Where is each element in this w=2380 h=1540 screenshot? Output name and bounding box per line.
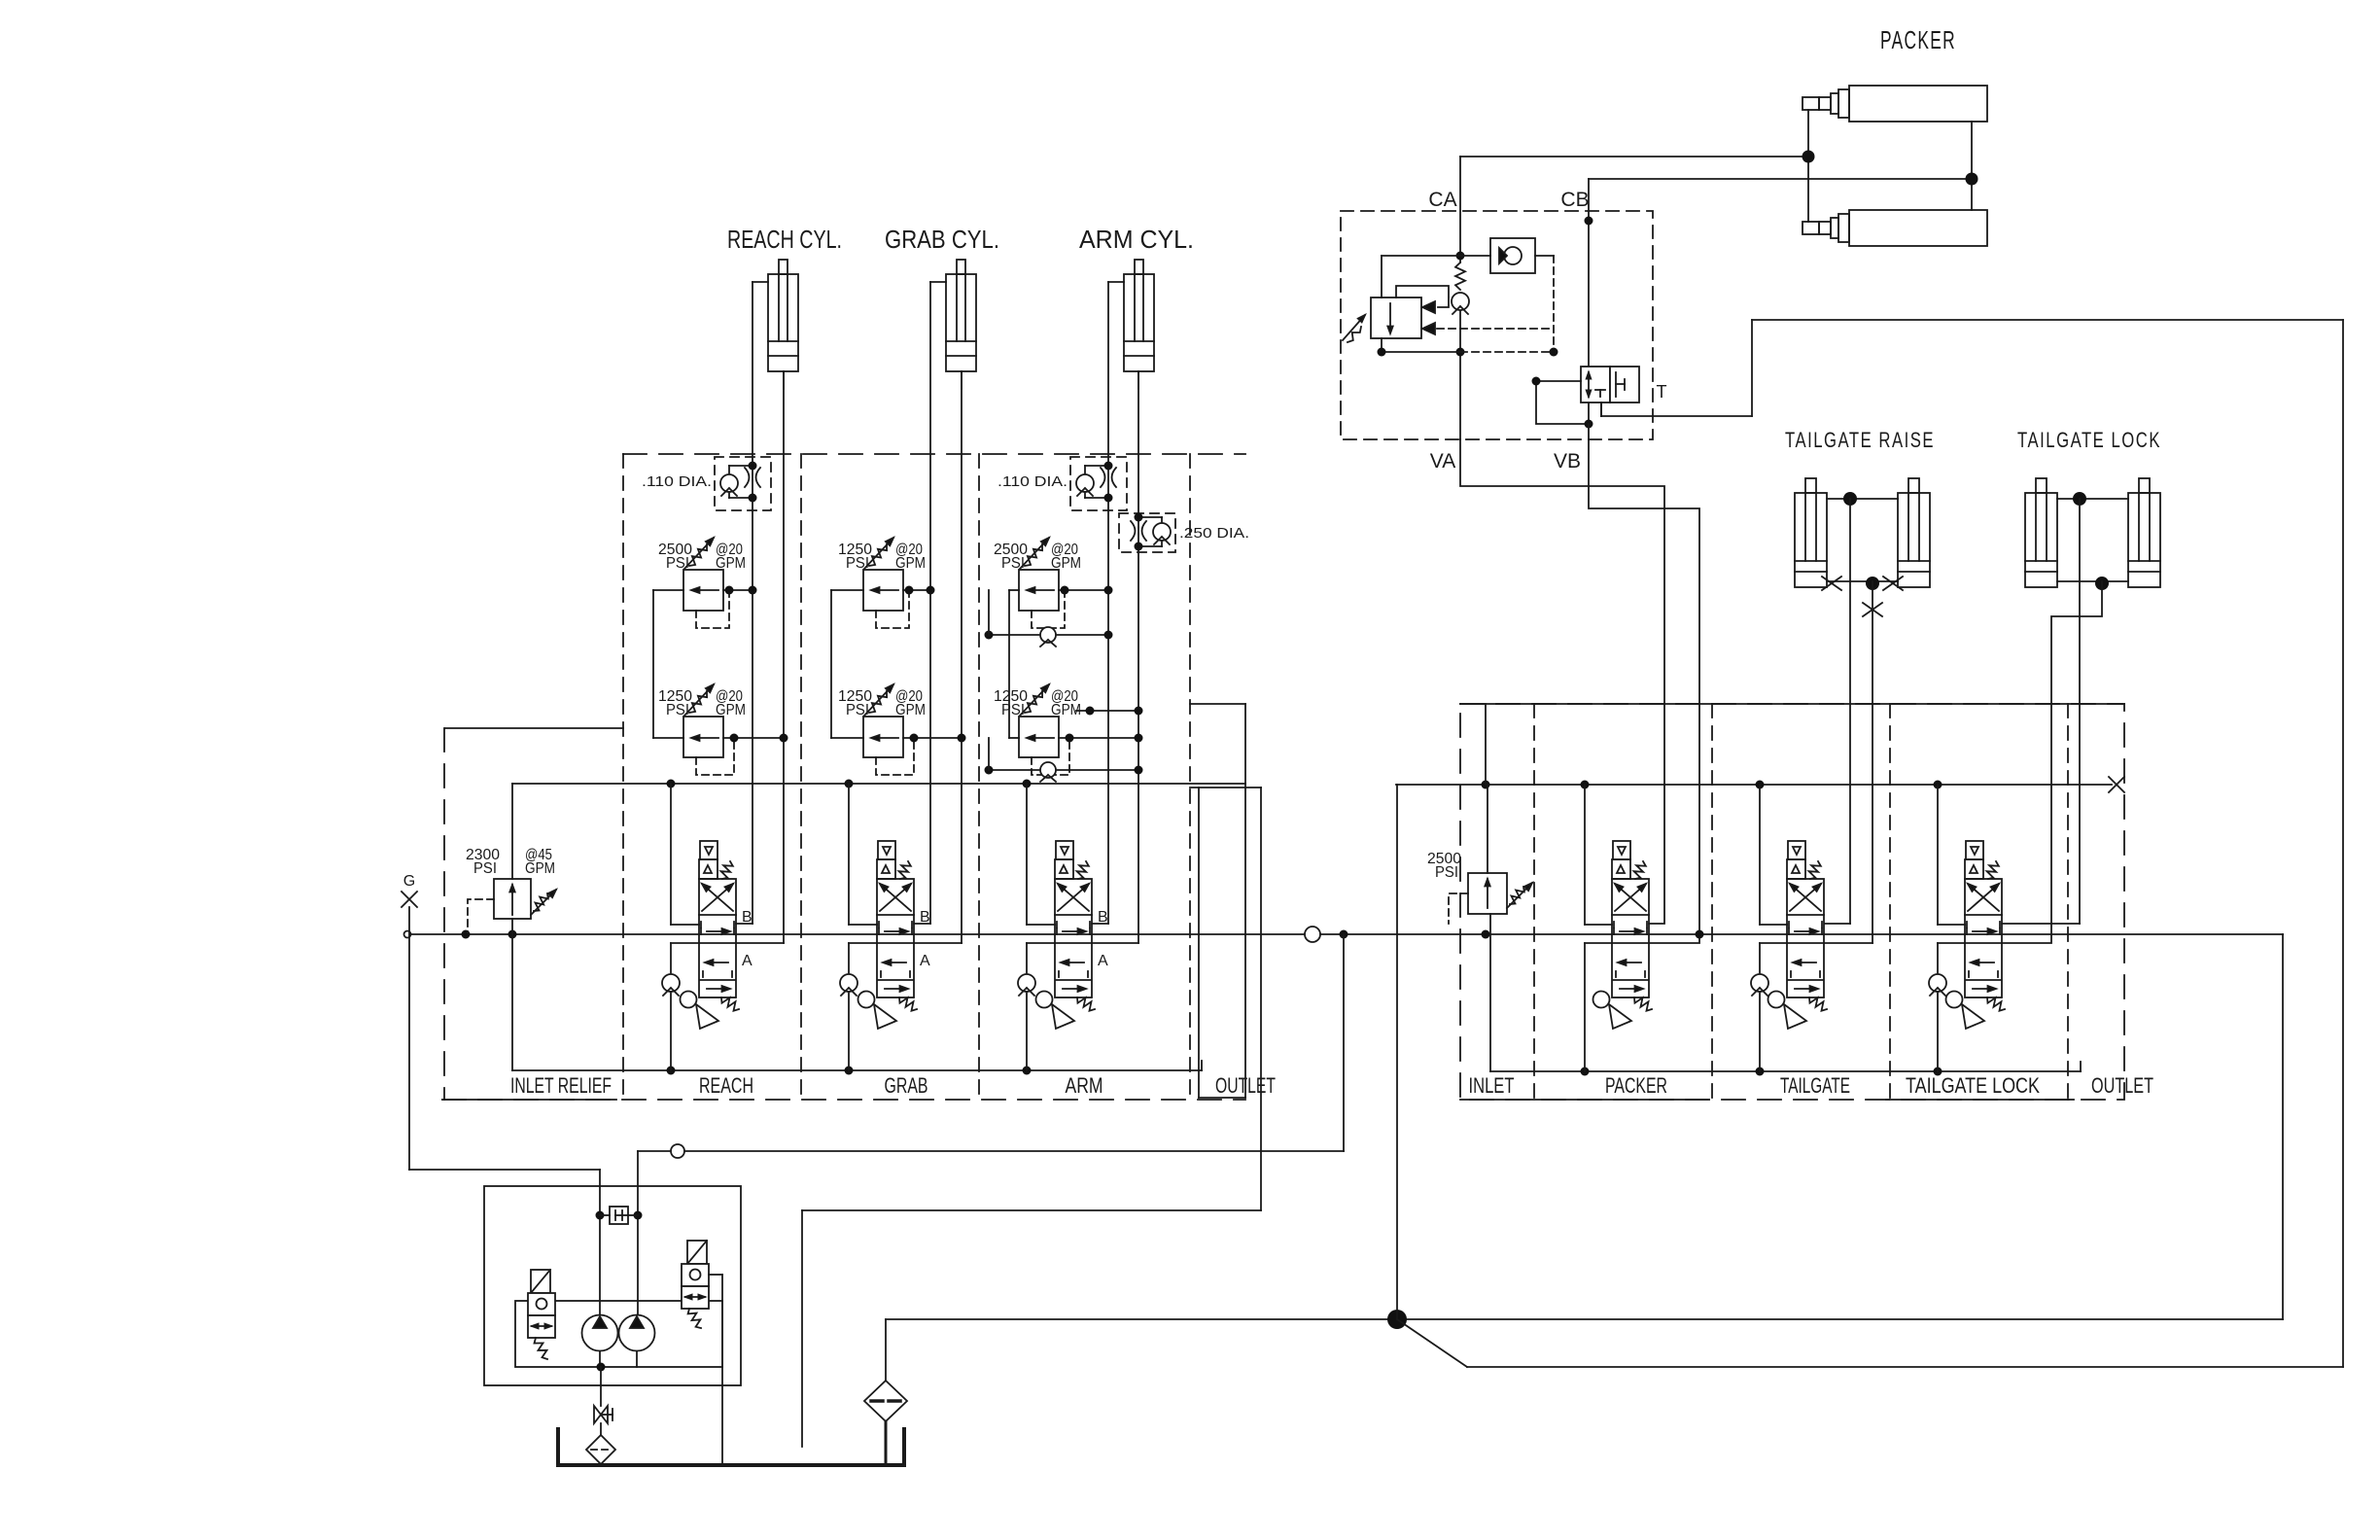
svg-text:PSI: PSI bbox=[1001, 702, 1025, 718]
check valve ARM bridge upper bbox=[985, 590, 1113, 647]
svg-text:GPM: GPM bbox=[1051, 555, 1081, 572]
label OUTLET bank2 bbox=[2091, 1073, 2153, 1098]
outlet column bank1 bbox=[1190, 704, 1245, 1098]
wire relief ARM left bbox=[1009, 590, 1019, 738]
label TAILGATE bank2 bbox=[1780, 1073, 1850, 1098]
label PACKER bbox=[1880, 25, 1956, 54]
wire TAILGATE supply leg bbox=[1760, 785, 1787, 975]
relief GRAB vent loop bbox=[876, 586, 914, 629]
relief GRAB lower vent loop bbox=[876, 734, 919, 776]
label VA bbox=[1430, 450, 1455, 472]
bank 2 separator PACKER/TAILGATE bbox=[1711, 704, 1713, 1100]
wire pump pressure return bbox=[638, 934, 1344, 1315]
wire CA top bbox=[1460, 157, 1808, 262]
relief ARM vent loop bbox=[1032, 586, 1069, 629]
wire cap port ARM bbox=[1137, 371, 1139, 389]
svg-text:G: G bbox=[403, 873, 415, 890]
relief REACH lower vent loop bbox=[696, 734, 739, 776]
pilot block dashed box bbox=[1341, 211, 1653, 439]
check valve ARM bridge lower bbox=[985, 738, 1143, 782]
svg-text:REACH: REACH bbox=[699, 1073, 753, 1098]
solenoid valve pump right bbox=[682, 1241, 709, 1328]
svg-text:VA: VA bbox=[1430, 450, 1455, 472]
wire pump drain bbox=[709, 1275, 722, 1465]
relief valve inlet 2300 PSI bbox=[466, 784, 556, 932]
svg-text:ARM: ARM bbox=[1066, 1073, 1103, 1098]
label OUTLET bank1 bbox=[1215, 1073, 1276, 1098]
wire relief REACH out bbox=[723, 586, 757, 595]
wire relief ARM out bbox=[1059, 586, 1113, 595]
wire REACH cap line bbox=[736, 371, 784, 943]
svg-text:PSI: PSI bbox=[1001, 555, 1025, 572]
svg-text:INLET RELIEF: INLET RELIEF bbox=[510, 1073, 612, 1098]
bank 1 section separator INLET RELIEF/REACH bbox=[622, 454, 624, 1100]
svg-text:TAILGATE LOCK: TAILGATE LOCK bbox=[1906, 1073, 2040, 1098]
svg-text:T: T bbox=[1657, 382, 1667, 402]
relief valve GRAB 1250 PSI lower bbox=[838, 684, 926, 757]
bank 1 section separator ARM/OUTLET bbox=[1189, 454, 1191, 1100]
label CB bbox=[1560, 189, 1589, 211]
strainer suction bbox=[586, 1423, 615, 1464]
label TAILGATE RAISE bbox=[1785, 428, 1935, 452]
svg-text:.110 DIA.: .110 DIA. bbox=[642, 473, 712, 490]
relief REACH vent loop bbox=[696, 586, 734, 629]
svg-text:GPM: GPM bbox=[895, 555, 926, 572]
label REACH CYL. bbox=[727, 225, 842, 254]
wire tailgate raise A bbox=[1825, 581, 1872, 943]
HP gallery bank2 bbox=[1396, 704, 2112, 789]
svg-text:A: A bbox=[1098, 953, 1108, 969]
check/orifice .250 DIA ARM bbox=[1119, 513, 1249, 553]
solenoid valve T bbox=[1581, 367, 1667, 402]
svg-text:INLET: INLET bbox=[1469, 1073, 1515, 1098]
wire rod port REACH bbox=[752, 281, 768, 283]
label GRAB bbox=[885, 1073, 928, 1098]
svg-text:TAILGATE RAISE: TAILGATE RAISE bbox=[1785, 428, 1935, 452]
svg-text:OUTLET: OUTLET bbox=[1215, 1073, 1276, 1098]
plug marks tailgate raise bbox=[1822, 577, 1903, 616]
svg-text:TAILGATE: TAILGATE bbox=[1780, 1073, 1850, 1098]
bank 2 separator INLET/PACKER bbox=[1533, 704, 1535, 1100]
label ARM bbox=[1066, 1073, 1103, 1098]
label ARM CYL. bbox=[1079, 225, 1194, 254]
wire TAILGATE to tank bbox=[1759, 992, 1761, 1071]
pump P2 bbox=[619, 1315, 655, 1351]
relief valve bank2 2500 PSI bbox=[1427, 785, 1532, 924]
wire relief GRAB left bbox=[831, 590, 863, 738]
bank 1 section separator GRAB/ARM bbox=[978, 454, 980, 1100]
svg-text:GRAB: GRAB bbox=[885, 1073, 928, 1098]
svg-text:PSI: PSI bbox=[666, 702, 689, 718]
wire relief REACH left bbox=[653, 590, 683, 738]
wire pump suction legs bbox=[597, 1351, 638, 1372]
tank gallery bank1 bbox=[512, 919, 1202, 1075]
wire ARM rod line bbox=[1092, 282, 1108, 924]
plug mark HP gallery end bbox=[2109, 777, 2124, 792]
orifice coupling pump bbox=[596, 1207, 643, 1224]
svg-text:OUTLET: OUTLET bbox=[2091, 1073, 2153, 1098]
wire REACH to tank bbox=[670, 992, 672, 1070]
label CA bbox=[1428, 189, 1456, 211]
wire suction from G line bbox=[409, 1170, 600, 1315]
wire main return trunk bbox=[886, 785, 2283, 1329]
check valve ARM load check bbox=[1018, 974, 1035, 996]
relief valve REACH 1250 PSI lower bbox=[658, 684, 746, 757]
shutoff valve bbox=[594, 1367, 612, 1423]
relief valve ARM 1250 PSI lower bbox=[994, 684, 1081, 757]
svg-text:PSI: PSI bbox=[666, 555, 689, 572]
wire relief row GRAB bbox=[831, 734, 966, 743]
svg-text:GPM: GPM bbox=[716, 555, 746, 572]
wire outlet loop bbox=[1397, 320, 2343, 1367]
return filter bbox=[864, 1319, 907, 1465]
svg-text:PSI: PSI bbox=[1435, 864, 1458, 881]
svg-text:GPM: GPM bbox=[525, 860, 555, 877]
check valve GRAB load check bbox=[840, 974, 857, 996]
wire relief row REACH bbox=[653, 734, 788, 743]
wire GRAB cap line bbox=[914, 371, 962, 943]
wire rod port GRAB bbox=[930, 281, 946, 283]
svg-text:TAILGATE LOCK: TAILGATE LOCK bbox=[2017, 428, 2161, 452]
svg-text:GRAB CYL.: GRAB CYL. bbox=[885, 225, 999, 254]
check valve REACH load check bbox=[662, 974, 680, 996]
directional valve ARM bbox=[1036, 841, 1109, 1029]
wire REACH check leg bbox=[671, 784, 699, 975]
tailgate lock cylinders bbox=[2025, 478, 2160, 590]
directional valve TAILGATE LOCK bbox=[1946, 841, 2006, 1029]
directional valve REACH bbox=[681, 841, 753, 1029]
relief valve ARM 2500 PSI bbox=[994, 538, 1081, 611]
wire TAILGATE LOCK supply leg bbox=[1938, 785, 1965, 975]
label TAILGATE LOCK bank2 bbox=[1906, 1073, 2040, 1098]
check/orifice .110 DIA REACH bbox=[642, 457, 771, 510]
wire GRAB check leg bbox=[849, 784, 877, 975]
spring check CA bbox=[1452, 252, 1469, 440]
directional valve TAILGATE bbox=[1768, 841, 1828, 1029]
svg-text:PSI: PSI bbox=[846, 555, 869, 572]
tank gallery bank2 bbox=[1460, 914, 2081, 1100]
svg-text:VB: VB bbox=[1554, 450, 1581, 472]
wire outlet drain bank1 bbox=[802, 787, 1261, 1447]
check valve TAILGATE LOCK load check bbox=[1929, 974, 1946, 996]
wire TAILGATE LOCK to tank bbox=[1937, 992, 1939, 1071]
svg-text:CB: CB bbox=[1560, 189, 1589, 211]
svg-text:B: B bbox=[920, 909, 930, 926]
svg-text:B: B bbox=[1098, 909, 1108, 926]
wire VB bbox=[1589, 424, 1704, 943]
relief ARM lower vent loop bbox=[1032, 734, 1074, 776]
wire packer cap side bbox=[1966, 122, 1978, 210]
wire cap port REACH bbox=[783, 371, 785, 389]
wire ARM aux bbox=[1076, 707, 1143, 716]
packer cylinder lower bbox=[1802, 210, 1987, 246]
wire VA bbox=[1460, 439, 1664, 924]
svg-text:PACKER: PACKER bbox=[1880, 25, 1956, 54]
wire pressure end drop bbox=[2282, 934, 2284, 1319]
directional valve PACKER bbox=[1593, 841, 1653, 1029]
svg-text:ARM CYL.: ARM CYL. bbox=[1079, 225, 1194, 254]
cylinder REACH bbox=[768, 260, 798, 371]
cylinder ARM bbox=[1124, 260, 1154, 371]
relief valve REACH 2500 PSI bbox=[658, 538, 746, 611]
solenoid valve pump left bbox=[528, 1270, 555, 1359]
tailgate raise cylinders bbox=[1795, 478, 1930, 590]
label REACH bbox=[699, 1073, 753, 1098]
packer cylinder upper bbox=[1802, 86, 1987, 122]
svg-text:GPM: GPM bbox=[895, 702, 926, 718]
label PACKER bank2 bbox=[1605, 1073, 1667, 1098]
cylinder GRAB bbox=[946, 260, 976, 371]
svg-text:.250 DIA.: .250 DIA. bbox=[1179, 525, 1249, 542]
wire tailgate raise B bbox=[1825, 499, 1850, 924]
check/orifice .110 DIA ARM bbox=[997, 457, 1127, 510]
pressure line main bbox=[404, 927, 2284, 942]
counterbalance valve bbox=[1343, 256, 1554, 357]
wire rod port ARM bbox=[1108, 281, 1124, 283]
svg-text:GPM: GPM bbox=[716, 702, 746, 718]
pilot check CB bbox=[1460, 238, 1558, 357]
valve bank 1 dashed enclosure bbox=[442, 454, 1245, 1100]
svg-text:REACH CYL.: REACH CYL. bbox=[727, 225, 842, 254]
pump enclosure outer bbox=[484, 1186, 741, 1385]
wire tailgate lock B bbox=[2002, 499, 2080, 924]
bank 1 section separator REACH/GRAB bbox=[800, 454, 802, 1100]
wire tailgate lock A bbox=[2002, 581, 2102, 943]
wire REACH rod line bbox=[736, 282, 752, 924]
relief valve GRAB 1250 PSI bbox=[838, 538, 926, 611]
bank 2 separator TAILGATE/LOCK bbox=[1889, 704, 1891, 1100]
wire T drain bbox=[1600, 402, 1602, 416]
HP gallery bank1 bbox=[512, 780, 1245, 788]
label TAILGATE LOCK bbox=[2017, 428, 2161, 452]
wire ARM cap line bbox=[1092, 371, 1138, 943]
check valve TAILGATE load check bbox=[1751, 974, 1768, 996]
svg-text:CA: CA bbox=[1428, 189, 1456, 211]
svg-text:PACKER: PACKER bbox=[1605, 1073, 1667, 1098]
pump enclosure inner bbox=[515, 1301, 722, 1367]
wire T pilot bbox=[1532, 377, 1593, 429]
label VB bbox=[1554, 450, 1581, 472]
pump P1 bbox=[582, 1315, 618, 1351]
svg-text:PSI: PSI bbox=[473, 860, 497, 877]
wire GRAB to tank bbox=[848, 992, 850, 1070]
wire PACKER supply leg bbox=[1585, 785, 1612, 1071]
wire CB bbox=[1585, 179, 1973, 424]
wire ARM to tank bbox=[1026, 992, 1028, 1070]
wire GRAB rod line bbox=[914, 282, 930, 924]
wire cap port GRAB bbox=[961, 371, 962, 389]
svg-text:A: A bbox=[742, 953, 752, 969]
wire relief row ARM bbox=[1009, 734, 1143, 743]
label GRAB CYL. bbox=[885, 225, 999, 254]
gauge port G bbox=[402, 873, 417, 1170]
svg-text:B: B bbox=[742, 909, 752, 926]
valve bank 2 dashed enclosure bbox=[1460, 704, 2124, 1100]
svg-text:PSI: PSI bbox=[846, 702, 869, 718]
directional valve GRAB bbox=[858, 841, 931, 1029]
wire relief GRAB out bbox=[903, 586, 935, 595]
svg-text:.110 DIA.: .110 DIA. bbox=[997, 473, 1067, 490]
wire packer rod side bbox=[1802, 110, 1815, 222]
wire ARM check leg bbox=[1027, 784, 1055, 975]
svg-text:A: A bbox=[920, 953, 930, 969]
label INLET RELIEF bbox=[510, 1073, 612, 1098]
label INLET bank2 bbox=[1469, 1073, 1515, 1098]
reservoir tank bbox=[558, 1429, 904, 1465]
bank 2 separator LOCK/OUTLET bbox=[2067, 704, 2069, 1100]
